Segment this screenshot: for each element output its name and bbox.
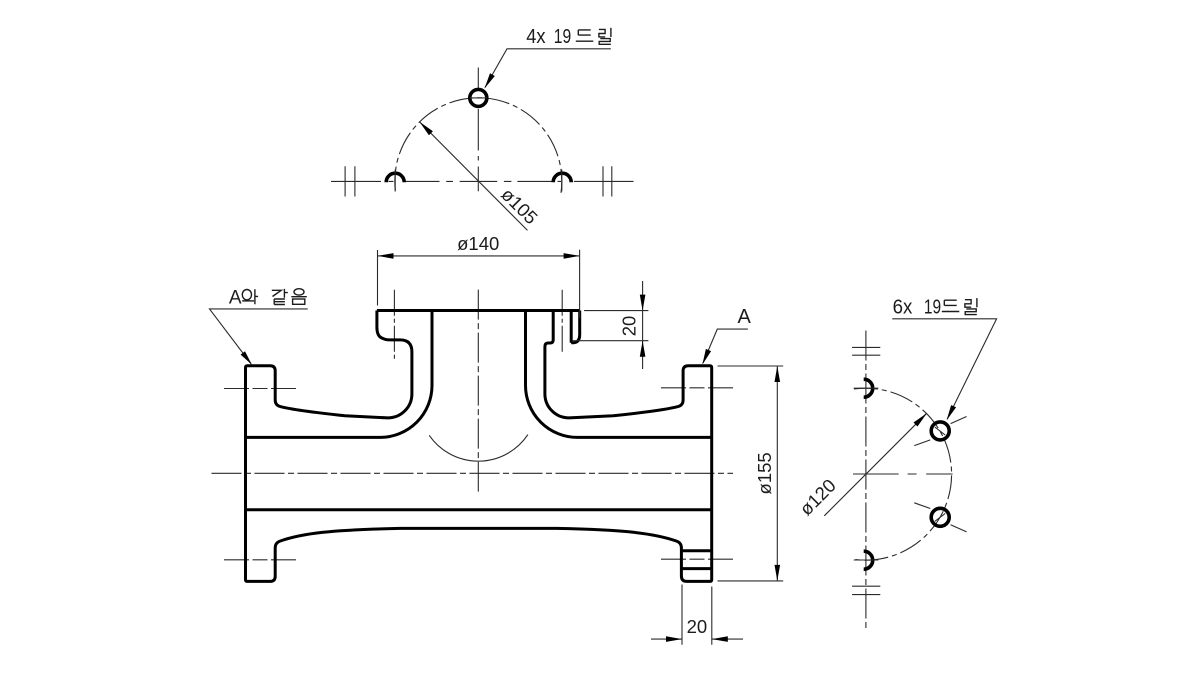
break mark left pair	[345, 166, 355, 196]
dimension phi105 diagonal line	[420, 122, 528, 230]
outline: branch left wall and run top left	[246, 311, 433, 438]
outline: bottom right flange bolt hole walls	[681, 551, 711, 569]
leader: 6x 19 drill label	[892, 319, 996, 419]
dimension phi155	[718, 366, 784, 581]
node: left flange upper hole center line	[224, 388, 297, 390]
wire: bolt circle arc phi105	[395, 98, 562, 193]
outline: branch right wall and run top right	[526, 311, 712, 438]
node: lower hole radial marks	[914, 503, 966, 532]
node: bottom hole tick	[854, 559, 879, 561]
svg-text:4x: 4x	[526, 26, 545, 48]
node: top flange right hole center line	[561, 290, 563, 352]
break mark bottom pair	[852, 586, 880, 594]
arrowhead 20b left	[666, 636, 682, 642]
outline: run bottom edge	[246, 508, 712, 511]
svg-text:19: 19	[924, 297, 941, 319]
node: upper hole radial marks	[914, 417, 966, 446]
node: top view vertical center line through top hole	[477, 68, 479, 89]
leader for A-wa gateum	[210, 309, 308, 364]
node: right view horizontal center line	[853, 473, 953, 475]
hole: top hole (half)	[864, 379, 873, 397]
node: right flange upper hole center line	[661, 387, 734, 389]
arrowhead A leader	[702, 349, 711, 365]
node: top flange left hole center line	[393, 290, 395, 361]
arrowhead 20 top	[640, 295, 646, 311]
outline: top flange right OD edge with corner	[571, 311, 580, 343]
hole: upper right drill hole	[931, 422, 949, 440]
svg-text:ø155: ø155	[754, 452, 775, 494]
node: top hole horizontal tick	[470, 97, 488, 99]
leader: 4x 19 drill label	[485, 49, 611, 88]
node: top view horizontal center line	[331, 180, 634, 182]
node: branch vertical center line	[477, 290, 479, 493]
arrowhead phi120	[914, 413, 927, 426]
node: run horizontal center line	[212, 472, 734, 474]
hole: right drill hole (half)	[553, 173, 571, 182]
arrowhead phi140 right	[564, 253, 580, 259]
arrowhead A-wa leader	[241, 351, 252, 365]
hole: bottom hole (half)	[864, 551, 873, 569]
node: left hole vertical tick	[394, 170, 396, 192]
break mark top pair	[852, 347, 880, 355]
svg-text:20: 20	[687, 616, 708, 637]
arrowhead phi155 bottom	[775, 565, 781, 581]
break mark right pair	[603, 166, 612, 196]
dimension phi140	[378, 250, 580, 318]
wire: bore intersection arc	[429, 435, 528, 462]
svg-text:19: 19	[554, 26, 571, 48]
dimension 20 flange thickness	[573, 281, 649, 369]
arrowhead 20b right	[712, 636, 728, 642]
arrowhead 6x leader	[947, 405, 957, 420]
hangul 음	[291, 289, 307, 305]
hangul 같	[272, 289, 288, 305]
node: top hole tick	[854, 387, 879, 389]
hangul 와	[242, 289, 258, 304]
arrowhead 20 bottom	[640, 341, 646, 357]
arrowhead phi155 top	[775, 366, 781, 382]
outline: main contour left flange to right flange	[246, 311, 712, 582]
node: left flange lower hole center line	[224, 559, 297, 561]
svg-text:A: A	[738, 306, 752, 328]
wire: bolt circle arc phi120	[854, 388, 952, 560]
outline: top flange right bolt hole far wall	[570, 311, 573, 343]
hole: top drill hole	[470, 89, 487, 106]
dimension 20 bottom flange	[651, 585, 743, 645]
svg-text:20: 20	[619, 316, 640, 337]
arrowhead phi140 left	[378, 253, 394, 259]
svg-text:ø140: ø140	[457, 233, 499, 254]
arrowhead 4x leader	[485, 73, 495, 88]
node: right hole vertical tick	[561, 170, 563, 192]
svg-text:A: A	[229, 288, 242, 309]
top flange top edge	[377, 309, 580, 312]
svg-text:6x: 6x	[893, 297, 913, 319]
hole: lower right drill hole	[931, 508, 949, 526]
node: right flange lower hole center line	[661, 558, 734, 560]
arrowhead phi105	[420, 122, 433, 135]
node: right view vertical center line	[865, 331, 867, 630]
dimension phi120 diagonal	[824, 413, 927, 516]
hole: left drill hole (half)	[386, 173, 404, 182]
